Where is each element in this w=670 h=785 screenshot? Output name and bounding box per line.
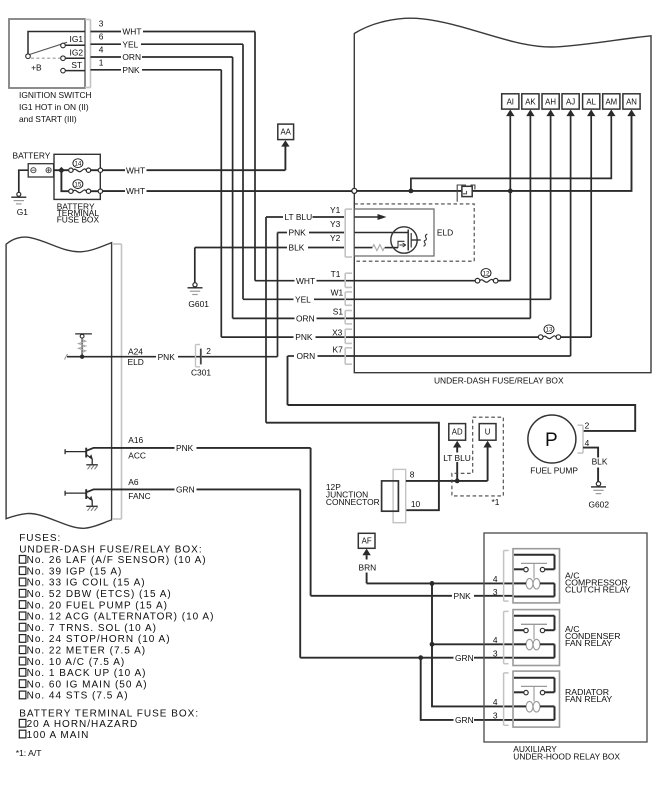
junction dot relay feed 1 (430, 581, 435, 586)
fuse 14 (73, 169, 86, 172)
connector AI (502, 94, 519, 109)
wire LT BLU riser down (265, 217, 267, 423)
wire PNK riser (220, 70, 222, 337)
wire to relay2 pin4 (432, 643, 513, 645)
wire LT BLU horizontal to junction riser (266, 423, 439, 511)
dashed link +B to IG2 (31, 57, 60, 59)
svg-text:BRN: BRN (359, 563, 377, 573)
ECM bracket (121, 244, 123, 519)
svg-text:No. 10 A/C (7.5 A): No. 10 A/C (7.5 A) (27, 657, 126, 668)
wire C301 to Y3 riser (202, 356, 278, 358)
wire T1 row inside box (346, 280, 475, 282)
connector AN (623, 94, 640, 109)
wire pin4 BLK to ground (583, 448, 598, 458)
svg-text:FANC: FANC (128, 491, 150, 501)
ELD transistor circle (391, 227, 417, 253)
wire A24 to C301 (112, 356, 156, 358)
svg-text:3: 3 (493, 711, 498, 721)
fuse 15 (73, 190, 86, 193)
bracket Y1 Y3 Y2 (344, 209, 346, 257)
wire A24 ELD row inside ECM (67, 356, 112, 358)
svg-text:GRN: GRN (455, 715, 474, 725)
svg-text:3: 3 (493, 648, 498, 658)
ignition internal wire +B to pin 3 (28, 32, 85, 54)
svg-text:No. 52 DBW (ETCS) (15 A): No. 52 DBW (ETCS) (15 A) (27, 589, 172, 600)
svg-text:ORN: ORN (296, 314, 315, 324)
fuse item No. 1 BACK UP (19, 669, 26, 677)
svg-text:LT BLU: LT BLU (285, 212, 313, 222)
fuse item No. 44 STS (19, 691, 26, 699)
svg-text:No. 12 ACG (ALTERNATOR) (10 A): No. 12 ACG (ALTERNATOR) (10 A) (27, 612, 215, 623)
connector AJ (562, 94, 579, 109)
bracket W1 (344, 292, 346, 305)
fuse item No. 7 TRNS. SOL (19, 623, 26, 631)
terminal IG2 (61, 56, 66, 61)
svg-text:1: 1 (99, 58, 104, 68)
junction dot AD/U (455, 479, 460, 484)
svg-text:IGNITION SWITCH: IGNITION SWITCH (19, 90, 92, 100)
bracket S1 (344, 311, 346, 324)
wire BRN to relay1 pin4 (367, 582, 513, 584)
junction dot AM branch (409, 189, 414, 194)
wire AD shaft (456, 447, 458, 452)
wire FANC riser down (299, 489, 301, 657)
wire ACC riser down (310, 448, 312, 596)
connector C301 (195, 345, 197, 367)
svg-text:No. 26 LAF (A/F SENSOR) (10 A): No. 26 LAF (A/F SENSOR) (10 A) (27, 555, 207, 566)
wire FANC GRN to relay2 pin3 (300, 657, 453, 659)
svg-text:PNK: PNK (289, 228, 307, 238)
svg-text:BATTERY: BATTERY (13, 151, 51, 161)
svg-text:WHT: WHT (296, 276, 315, 286)
svg-text:Y2: Y2 (330, 233, 341, 243)
wire PNK Y3 riser down (277, 233, 279, 357)
wire BLK to ground (194, 248, 196, 283)
wire YEL W1 (243, 298, 294, 300)
svg-text:BLK: BLK (592, 457, 608, 467)
12P junction connector (393, 469, 406, 522)
svg-text:AL: AL (586, 97, 596, 106)
ignition switch box (9, 19, 85, 88)
svg-text:C301: C301 (191, 367, 211, 377)
wire PNK X3 (221, 336, 293, 338)
wire BLK Y2 (195, 247, 287, 249)
connector AA (278, 124, 294, 140)
ELD sensor symbol inside ECM (75, 333, 92, 335)
svg-text:3: 3 (99, 18, 104, 28)
svg-text:UNDER-DASH FUSE/RELAY BOX:: UNDER-DASH FUSE/RELAY BOX: (19, 544, 202, 555)
wire WHT T1 (255, 280, 295, 282)
ignition switch bracket (90, 20, 92, 88)
riser AI (509, 116, 511, 281)
svg-text:and START (III): and START (III) (19, 114, 77, 124)
fuse item No. 52 DBW (19, 589, 26, 597)
wire to fuse 15 (61, 170, 68, 191)
svg-text:CONNECTOR: CONNECTOR (326, 497, 380, 507)
svg-text:IG2: IG2 (70, 47, 84, 57)
ELD squiggle (424, 234, 428, 246)
svg-text:No. 39 IGP (15 A): No. 39 IGP (15 A) (27, 566, 123, 577)
fuse item No. 20 FUEL PUMP (19, 601, 26, 609)
relay A/C condenser fan (503, 611, 505, 663)
wire S1 row inside box (346, 317, 530, 319)
fuse item No. 26 LAF (19, 556, 26, 564)
riser AL (590, 116, 592, 337)
wire ORN K7 long horizontal (288, 405, 636, 431)
svg-text:4: 4 (493, 635, 498, 645)
wire YEL pin6 (91, 43, 122, 45)
svg-text:U: U (485, 428, 491, 437)
svg-text:YEL: YEL (295, 294, 311, 304)
battery ground wire (19, 170, 28, 192)
svg-text:No. 44 STS (7.5 A): No. 44 STS (7.5 A) (27, 691, 129, 702)
svg-text:IG1 HOT in ON (II): IG1 HOT in ON (II) (19, 102, 89, 112)
svg-text:AN: AN (626, 97, 637, 106)
svg-text:8: 8 (410, 470, 415, 480)
connector AF (358, 533, 375, 548)
svg-text:A6: A6 (128, 477, 139, 487)
bracket T1 (344, 273, 346, 287)
small connector on WHT wire (462, 186, 472, 196)
svg-text:Y3: Y3 (330, 219, 341, 229)
wire K7 row inside box (346, 355, 571, 357)
svg-text:ORN: ORN (297, 351, 316, 361)
svg-text:UNDER-HOOD RELAY BOX: UNDER-HOOD RELAY BOX (513, 752, 620, 762)
svg-text:WHT: WHT (126, 186, 145, 196)
svg-text:PNK: PNK (176, 443, 194, 453)
svg-text:FUEL PUMP: FUEL PUMP (530, 466, 578, 476)
transistor FANC inside ECM (65, 492, 85, 494)
fuse 12 (480, 279, 494, 282)
svg-text:2: 2 (585, 421, 590, 431)
terminal circle WHT1 (98, 168, 102, 172)
svg-text:G602: G602 (589, 500, 610, 510)
battery minus terminal (31, 168, 36, 173)
wire GRN branch to relay3 pin3 (421, 658, 454, 720)
wire WHT riser (254, 32, 256, 281)
svg-text:A16: A16 (128, 435, 143, 445)
wire PNK pin1 (91, 69, 122, 71)
wire X3 row inside box (346, 336, 538, 338)
svg-text:20 A HORN/HAZARD: 20 A HORN/HAZARD (27, 719, 139, 730)
ELD inner box (354, 209, 434, 256)
fuse item No. 12 ACG (19, 612, 26, 620)
wire LT BLU Y1 (266, 216, 283, 218)
wire ACC PNK to relay1 pin3 (311, 595, 452, 597)
svg-text:WHT: WHT (126, 165, 145, 175)
ground G602 (596, 482, 600, 486)
wire ORN K7 riser down (287, 356, 289, 405)
svg-text:+B: +B (31, 62, 42, 72)
battery terminal fuse box (54, 154, 100, 199)
svg-text:6: 6 (99, 32, 104, 42)
svg-text:FUSE BOX: FUSE BOX (57, 215, 100, 225)
svg-text:4: 4 (585, 438, 590, 448)
fuse item No. 33 IG COIL (19, 578, 26, 586)
svg-text:2: 2 (206, 346, 211, 356)
terminal ST (61, 68, 66, 73)
svg-text:UNDER-DASH FUSE/RELAY BOX: UNDER-DASH FUSE/RELAY BOX (434, 375, 564, 385)
wire ORN S1 (233, 317, 295, 319)
wire FANC GRN row (112, 488, 175, 490)
svg-text:AM: AM (605, 97, 617, 106)
svg-text:S1: S1 (333, 306, 344, 316)
svg-text:W1: W1 (331, 288, 344, 298)
under-dash fuse/relay box (354, 18, 651, 372)
Y3 wire into ELD transistor (354, 232, 408, 234)
wire WHT fuse15 row (103, 190, 125, 192)
Y1 arrow inside ELD (354, 216, 379, 218)
connector AH (542, 94, 559, 109)
svg-text:AF: AF (362, 537, 372, 546)
junction dot battery feed (58, 167, 65, 174)
transistor ACC inside ECM (65, 451, 85, 453)
connector AM (603, 94, 620, 109)
svg-text:*1: A/T: *1: A/T (16, 748, 43, 758)
ground G601 (193, 283, 197, 287)
switch lever (30, 42, 68, 54)
wire ORN riser (232, 57, 234, 318)
junction dot relay feed 2 (430, 642, 435, 647)
riser AK (529, 116, 531, 318)
svg-text:FAN RELAY: FAN RELAY (565, 694, 612, 704)
svg-text:3: 3 (493, 587, 498, 597)
svg-text:G1: G1 (17, 207, 29, 217)
svg-text:GRN: GRN (176, 484, 195, 494)
svg-text:No. 20 FUEL PUMP (15 A): No. 20 FUEL PUMP (15 A) (27, 600, 168, 611)
connector U (479, 424, 496, 441)
wire W1 row inside box (346, 298, 551, 300)
svg-text:G601: G601 (188, 299, 209, 309)
svg-text:AI: AI (507, 97, 514, 106)
ECM/PCM box (6, 237, 112, 528)
terminal circle WHT into box (352, 188, 357, 193)
svg-text:AJ: AJ (566, 97, 575, 106)
svg-text:CLUTCH RELAY: CLUTCH RELAY (565, 585, 631, 595)
svg-text:100 A MAIN: 100 A MAIN (27, 730, 90, 741)
riser AM (411, 116, 611, 191)
riser AH (550, 116, 552, 299)
wire ORN pin4 (91, 56, 122, 58)
svg-text:ACC: ACC (128, 451, 146, 461)
fuse 13 (543, 336, 556, 339)
svg-text:GRN: GRN (455, 653, 474, 663)
wire battery plus to fuse box (54, 169, 69, 171)
fuse item No. 22 METER (19, 646, 26, 654)
svg-text:13: 13 (545, 327, 553, 334)
wire PNK Y3 (278, 232, 288, 234)
svg-text:K7: K7 (333, 344, 344, 354)
svg-text:WHT: WHT (122, 27, 141, 37)
svg-text:T1: T1 (331, 269, 341, 279)
svg-text:ELD: ELD (128, 357, 144, 367)
svg-text:4: 4 (99, 45, 104, 55)
svg-text:P: P (545, 430, 558, 451)
svg-text:4: 4 (493, 574, 498, 584)
ground G1 (17, 192, 21, 196)
svg-text:FUSES:: FUSES: (19, 533, 61, 544)
svg-text:ELD: ELD (437, 227, 453, 237)
svg-text:BLK: BLK (289, 243, 305, 253)
fuel pump bracket (582, 425, 584, 453)
svg-text:No. 33 IG COIL (15 A): No. 33 IG COIL (15 A) (27, 578, 146, 589)
svg-text:BATTERY TERMINAL FUSE BOX:: BATTERY TERMINAL FUSE BOX: (19, 708, 199, 719)
wire YEL riser (242, 44, 244, 299)
connector AD (449, 424, 466, 441)
bracket K7 (344, 348, 346, 364)
relay radiator fan (503, 673, 505, 725)
svg-text:FAN RELAY: FAN RELAY (565, 638, 612, 648)
wire pin 8 row (406, 480, 488, 482)
junction dot AI branch (508, 189, 513, 194)
relay A/C compressor clutch (503, 551, 505, 602)
fuse item No. 60 IG MAIN (19, 680, 26, 688)
terminal IG1 (61, 43, 66, 48)
svg-text:AA: AA (280, 128, 291, 137)
svg-text:No. 7 TRNS. SOL (10 A): No. 7 TRNS. SOL (10 A) (27, 623, 157, 634)
svg-text:No. 22 METER (7.5 A): No. 22 METER (7.5 A) (27, 646, 146, 657)
connector AL (583, 94, 600, 109)
bracket X3 (344, 329, 346, 343)
svg-text:A24: A24 (128, 347, 143, 357)
svg-text:PNK: PNK (122, 65, 140, 75)
wire ACC PNK row (112, 447, 175, 449)
svg-text:AD: AD (452, 428, 463, 437)
svg-text:LT BLU: LT BLU (443, 453, 471, 463)
fuse item No. 24 STOP/HORN (19, 635, 26, 643)
vertical relay pin4 bus (432, 583, 513, 706)
riser AN (356, 116, 632, 191)
terminal +B (26, 54, 31, 59)
svg-text:PNK: PNK (454, 591, 472, 601)
fuel pump circle (528, 415, 576, 463)
svg-text:ORN: ORN (122, 52, 141, 62)
wire AA shaft (284, 146, 286, 170)
svg-text:Y1: Y1 (330, 205, 341, 215)
connector AK (522, 94, 539, 109)
svg-text:No. 1 BACK UP (10 A): No. 1 BACK UP (10 A) (27, 668, 147, 679)
svg-text:PNK: PNK (295, 332, 313, 342)
wire WHT pin3 (91, 31, 122, 33)
junction dot GRN (418, 655, 423, 660)
Y2 wire with resistor (354, 247, 372, 249)
svg-text:10: 10 (411, 499, 421, 509)
fuse item No. 39 IGP (19, 567, 26, 575)
svg-text:15: 15 (74, 181, 82, 188)
wire AF shaft BRN (366, 555, 368, 559)
svg-text:*1: *1 (492, 497, 500, 507)
auxiliary under-hood relay box (484, 533, 647, 742)
svg-text:No. 60 IG MAIN (50 A): No. 60 IG MAIN (50 A) (27, 679, 148, 690)
wire U shaft (487, 447, 489, 481)
svg-text:4: 4 (493, 697, 498, 707)
wire WHT fuse14 row (103, 169, 125, 171)
fuse item No. 10 A/C (19, 657, 26, 665)
battery plus terminal (46, 168, 51, 173)
svg-text:X3: X3 (332, 327, 343, 337)
svg-text:YEL: YEL (122, 39, 138, 49)
svg-text:ST: ST (71, 60, 82, 70)
svg-text:AK: AK (525, 97, 536, 106)
dashed box *1 around U (452, 417, 503, 496)
svg-text:No. 24 STOP/HORN (10 A): No. 24 STOP/HORN (10 A) (27, 634, 171, 645)
terminal circle WHT2 (98, 189, 102, 193)
riser AJ (570, 116, 572, 356)
wire ORN K7 (288, 355, 295, 357)
svg-text:14: 14 (74, 161, 82, 168)
svg-text:IG1: IG1 (70, 34, 84, 44)
battery box (28, 164, 53, 177)
ELD dashed box (354, 204, 474, 261)
svg-text:12: 12 (482, 270, 490, 277)
svg-text:AH: AH (545, 97, 556, 106)
svg-text:PNK: PNK (158, 352, 176, 362)
